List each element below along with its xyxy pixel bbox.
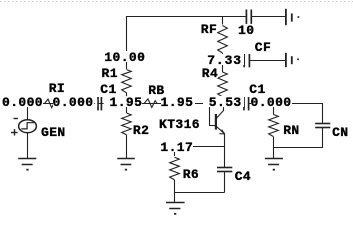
node voltage part2 bbox=[53, 96, 94, 107]
generator GEN bbox=[19, 120, 37, 133]
resistor RF bbox=[218, 26, 228, 54]
minus mark bbox=[14, 118, 19, 120]
ground dot (R6) bbox=[174, 213, 176, 215]
wire top rail bbox=[126, 16, 246, 18]
wire input row bbox=[28, 103, 210, 105]
wire CN column top bbox=[322, 103, 324, 124]
wire CN column bottom bbox=[322, 128, 324, 149]
label R1 bbox=[102, 67, 118, 78]
ground dot (R2) bbox=[125, 169, 127, 171]
capacitor C1 input bbox=[98, 97, 101, 110]
wire collector column bbox=[223, 103, 225, 110]
white sliver left of input cap bbox=[95, 99, 97, 107]
capacitor CF bbox=[244, 54, 249, 67]
label R4 bbox=[202, 67, 218, 78]
capacitor CN bbox=[315, 124, 330, 128]
wire R6 ground stub bbox=[174, 193, 176, 203]
resistor R1 bbox=[122, 70, 132, 93]
label RI bbox=[49, 82, 65, 93]
ground (R6) bbox=[166, 203, 185, 209]
plus mark bbox=[11, 129, 18, 135]
label C1 (output) bbox=[249, 83, 265, 94]
wire C4 column bottom bbox=[224, 172, 226, 193]
value 10 (battery E1) bbox=[238, 24, 254, 35]
resistor RB bbox=[144, 99, 157, 108]
resistor R4 bbox=[218, 72, 228, 97]
label RF bbox=[201, 23, 217, 34]
node voltage 0.000\0.000 (gen) part1 bbox=[2, 96, 43, 107]
wire R2 to ground bbox=[126, 135, 128, 159]
wire GEN column bottom bbox=[27, 133, 29, 159]
ground dot (RN) bbox=[273, 169, 275, 171]
resistor R6 bbox=[170, 157, 180, 180]
wire bottom right rail bbox=[274, 147, 323, 149]
wire RF column stub bbox=[222, 16, 224, 25]
node voltage 10.00 bbox=[104, 51, 145, 62]
wire bottom rail (R6-C4) bbox=[175, 192, 225, 194]
node voltage 0.000 (output) bbox=[251, 96, 292, 107]
grid dotted top edge bbox=[0, 1, 353, 3]
node dot E2 bbox=[297, 59, 299, 61]
wire emitter to R6 bbox=[175, 146, 225, 148]
wire R6 to bottom rail bbox=[174, 180, 176, 193]
label CF bbox=[255, 41, 271, 52]
wire RN column bbox=[273, 104, 275, 115]
node voltage 1.95 (node B) bbox=[110, 96, 143, 107]
node voltage 1.95 (base) bbox=[161, 96, 196, 107]
transistor Q1 KT316 bbox=[216, 110, 225, 134]
resistor RN bbox=[269, 115, 279, 137]
wire base drop bbox=[210, 104, 216, 126]
label RB bbox=[148, 84, 164, 95]
wire R4 to collector node bbox=[222, 97, 224, 104]
wire cap to battery E1 bbox=[251, 16, 285, 18]
ground (RN) bbox=[265, 159, 283, 165]
label RN bbox=[283, 124, 299, 135]
white sliver right of input cap bbox=[104, 99, 110, 107]
wire RN to bottom bbox=[273, 137, 275, 148]
node voltage 5.53 (collector) bbox=[203, 96, 244, 107]
wire CF to battery bbox=[249, 60, 285, 62]
wire R1 column upper bbox=[126, 16, 128, 69]
label GEN bbox=[41, 126, 66, 137]
label R6 bbox=[183, 168, 199, 179]
label C1 (input) bbox=[100, 83, 116, 94]
wire RF to R4 bbox=[222, 53, 224, 72]
wire RN ground stub bbox=[273, 148, 275, 159]
wire CF branch bbox=[223, 60, 245, 62]
wire R1 to node bbox=[126, 93, 128, 104]
node voltage 7.33 bbox=[207, 54, 244, 65]
battery E1 plates bbox=[286, 9, 292, 25]
capacitor C1 output bbox=[244, 97, 249, 110]
label CN bbox=[332, 126, 348, 137]
wire emitter column bbox=[224, 134, 226, 168]
wire R6 column top bbox=[174, 147, 176, 157]
ground (GEN) bbox=[18, 159, 36, 165]
resistor RI bbox=[45, 99, 55, 108]
ground dot (GEN) bbox=[26, 169, 28, 171]
wire output row bbox=[249, 103, 323, 105]
wire collector to output cap bbox=[223, 103, 245, 105]
wire R2 column bbox=[126, 104, 128, 114]
label KT316 bbox=[159, 118, 200, 129]
label C4 bbox=[235, 170, 251, 181]
label R2 bbox=[133, 124, 149, 135]
wire GEN column top bbox=[27, 104, 29, 120]
node dot E1 bbox=[298, 16, 300, 18]
capacitor C top (value 10) bbox=[246, 10, 251, 24]
battery E2 plates bbox=[286, 53, 292, 67]
node voltage 1.17 (emitter) bbox=[160, 141, 193, 152]
capacitor C4 bbox=[217, 168, 232, 172]
ground (R2) bbox=[117, 159, 135, 165]
resistor R2 bbox=[122, 113, 132, 135]
